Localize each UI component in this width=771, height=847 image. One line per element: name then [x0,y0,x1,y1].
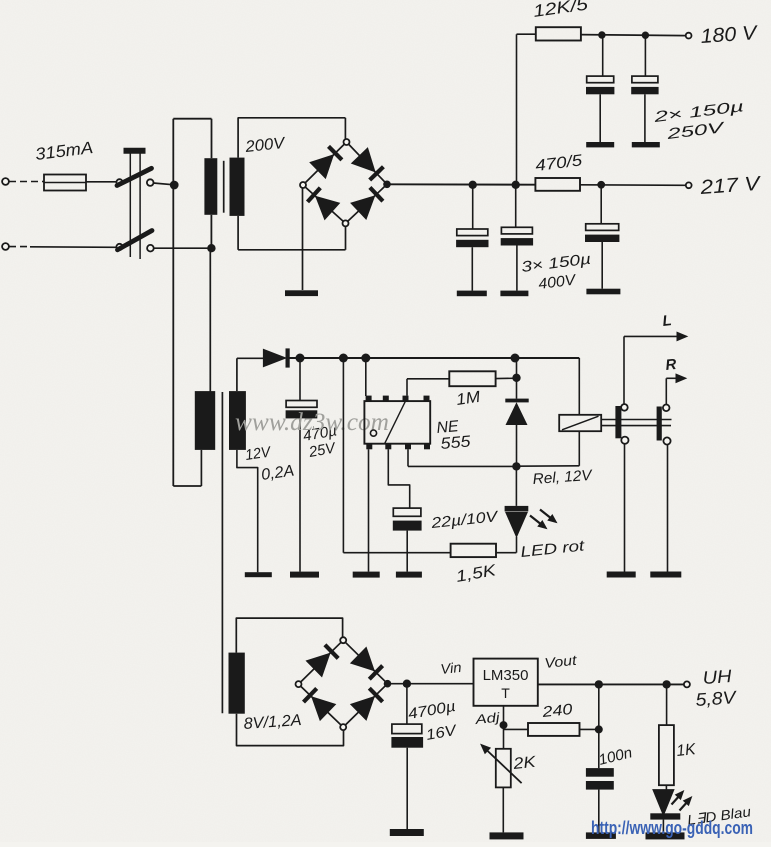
wire cap C2 to rail [644,35,646,76]
terminal UH [684,681,690,687]
wire out node down [598,684,600,768]
resistor 1,5K [451,544,496,557]
junction dot 180V a [598,31,605,38]
wire C2 to ground [644,94,646,142]
junction dot rail relay [511,354,520,363]
wire LM350 adj [503,706,505,725]
wire 1K to LED [665,785,667,789]
wire C5 to ground [601,242,603,289]
wire 1k5 feed vertical [342,358,344,553]
wire 555 pin2 to 22u [388,449,409,508]
capacitor 22u/10V [393,508,422,530]
wire 555 pin3 to relay node [408,449,516,466]
relay contact R bar [657,407,662,441]
mains bus left vertical [172,119,174,486]
wire D2 to node [516,425,518,467]
bridge B1 diode top-left [310,146,342,178]
label 22u/10V [429,508,500,532]
wire 1k5 right [496,552,516,554]
resistor 240 [528,723,580,736]
bridge B2 diode bottom-right [351,688,383,720]
label Vout [544,652,579,671]
flyback diode D2 [505,399,528,425]
transformer T1 secondary winding 200V [230,158,245,216]
wire cap C5 lead [600,185,602,224]
wire node N down to T2 primary [209,248,211,392]
wire terminal N to switch [9,246,117,249]
ground 555 [353,572,380,578]
NE555 diagonal [385,401,406,444]
label 2x150u [652,98,745,126]
ground 12V return [245,572,272,577]
switch S1 pole1 contacts [116,179,153,186]
wire 470u cap lead [299,358,301,401]
junction dot 1M [512,374,520,382]
transformer T3 secondary 8V winding [229,653,245,714]
svg-text:Vin: Vin [440,659,463,677]
LED blue bar [650,813,680,819]
wire 2K to ground [502,787,504,832]
capacitor 470u 25V [286,401,318,419]
svg-text:2K: 2K [512,754,538,773]
label Rel 12V [532,467,594,488]
wire LED blue to ground [662,820,664,833]
wire adj to 2K [503,725,505,749]
wire C4 to ground [516,246,518,291]
bridge B1 diode bottom-left [308,188,340,220]
junction dot adj [500,721,508,729]
wire node to LED [515,466,517,506]
junction dot 240 [595,725,603,733]
junction dot rail A [469,181,477,189]
junction dot 180V b [642,32,649,39]
terminal 217V [686,182,692,188]
switch S1 pole2 contacts [116,244,153,252]
mains terminal N [2,243,9,250]
ground contact R [650,572,681,578]
svg-text:www.dz3w.com: www.dz3w.com [235,409,389,436]
bridge B1 node right (junction) [383,181,391,189]
label LM350 [483,667,529,684]
bridge rectifier B2 frame [299,640,388,727]
watermark go-gddq [591,818,753,838]
NE555 circle mark [370,430,376,436]
svg-text:5,8V: 5,8V [695,687,738,710]
wire 4700u to ground [406,748,408,829]
wire switch pole1 to bus, node [153,181,178,190]
bridge rectifier B1 frame [303,142,387,223]
wire 100n to ground [598,790,600,833]
label LED rot [520,537,586,561]
wire rail to relay [578,358,580,415]
relay armature [601,420,671,426]
label 250V [665,119,727,143]
label Vin [440,659,463,677]
wire 4700u lead [406,684,408,724]
wire cap C3 lead [472,185,474,229]
wire T1 primary bottom to node [210,215,212,248]
svg-text:Adj: Adj [473,709,501,727]
ground C1 [586,142,614,147]
wire 22u to ground [406,531,408,572]
transformer T2 secondary 12V winding [229,391,246,450]
wire cap C4 lead [515,185,517,228]
bridge B1 node left [300,182,306,188]
transformer T2 primary winding [195,391,215,450]
regulator LM350 box [474,659,538,706]
trimmer 2K arrow [481,745,522,784]
wire contact R to ground [667,445,669,572]
wire contact R up and out R [666,374,686,404]
label 5,8V [695,687,738,710]
label 555 [440,433,471,453]
junction dot rail 555 [361,354,370,363]
wire T2 primary bottom to bus [173,450,201,486]
relay contact L bar [615,406,621,438]
trimmer 2K box [496,749,511,788]
wire 1M to relay branch [496,377,517,379]
label 12V [244,443,273,464]
label 16V [425,722,460,744]
ground 100n [586,832,616,839]
wire 555 pin5 top to 1M [407,379,449,396]
junction dot rail B [512,181,520,189]
label LED Blau [686,803,752,828]
label L [662,312,673,330]
label 470/5 [534,152,583,175]
wire 1K lead [666,684,668,725]
relay contact R circles [663,405,671,445]
relay coil box [559,415,601,431]
svg-text:1M: 1M [455,389,482,409]
wire C1 to ground [599,94,601,142]
wire 1k5 left [343,552,450,554]
bridge B2 node bottom [340,724,346,730]
wire up to 12K resistor [517,34,536,185]
bridge B1 diode top-right [352,148,384,180]
label 8V/1,2A [243,712,302,733]
LED red bar [505,506,529,512]
switch actuator bar [124,148,146,154]
wire T1 secondary bottom to bridge [238,216,345,250]
ground under bridge B1 [285,290,318,296]
wire T2 sec bottom to ground [237,450,258,572]
junction dot 4700u [403,680,411,688]
svg-text:1K: 1K [676,741,698,760]
wire 470u to ground [299,418,301,571]
bridge B1 diode bottom-right [351,187,383,219]
label 0,2A [260,463,295,484]
fuse F 315mA [44,175,86,191]
label 25V [307,439,338,461]
ground C3 [457,291,487,297]
wire contact L up and out L [624,332,687,404]
svg-text:http://www.go-gddq.com: http://www.go-gddq.com [591,818,753,838]
bridge B2 node top [340,637,346,643]
label 1,5K [455,562,499,586]
wire T2 sec top to rail [237,358,264,391]
wire B1 left node to ground [302,188,304,290]
wire switch pole2 to node [154,244,216,252]
switch S1 pole2 blade [118,231,153,250]
label 400V [537,271,578,293]
wire terminal to fuse (dashed) [9,181,44,183]
transformer core T2/T3 [221,392,223,713]
label 315mA [34,138,94,164]
svg-text:180 V: 180 V [700,22,759,48]
capacitor C3 150u [456,229,488,247]
resistor 470/5 [535,178,580,191]
label 470u [302,422,338,445]
wire 470/5 to 217V terminal [580,184,686,187]
ground C2 [632,142,660,147]
wire 12V rail [288,357,580,359]
capacitor 4700u 16V [391,724,423,748]
ground 22u [396,572,422,578]
bridge B2 diode top-right [351,647,383,679]
capacitor C1 150u [586,76,614,94]
watermark dz3w [235,409,389,436]
bridge B2 node left [296,681,302,687]
junction dot relay low [512,462,520,470]
wire 240 to out node [580,728,599,730]
wire LED to 1k5 rail [516,537,518,553]
wire T3 sec top loop [236,618,342,653]
ground 470u [290,572,319,578]
wire B1 output rail 217V [391,183,536,185]
relay contact L circles [621,404,628,444]
wire 555 pin1 top lead [365,358,367,396]
junction dot rail 470u [296,354,305,363]
IC NE555 box [364,401,430,444]
label R [665,356,678,374]
ground LED blue [646,832,685,839]
svg-text:UH: UH [702,666,733,688]
LED red arrows [530,510,557,529]
wire 12K to 180V terminal [581,35,686,36]
ground C4 [500,291,528,297]
junction dot rail 1k5 [339,354,348,363]
svg-text:LM350: LM350 [483,667,529,684]
diode D1 rectifier [263,348,287,367]
ground 2K [490,832,524,839]
label 217 V [699,173,762,199]
wire T3 sec bottom loop [237,714,344,746]
wire contact L to ground [624,444,626,572]
label 240 [540,701,574,721]
label 3x150u [520,251,592,276]
label 100n [597,744,634,769]
capacitor C5 150u [585,224,619,242]
bridge B1 node bottom [343,220,349,226]
label 1K [676,741,698,760]
wire cap C1 to rail [602,35,604,76]
switch actuator rails [130,154,140,260]
label 1M [455,389,482,409]
wire bus top to primary T1 [173,119,211,159]
resistor 1M [449,371,495,386]
LED blue arrows [672,791,692,811]
label Adj [473,709,501,727]
switch S1 pole1 blade [117,168,152,185]
svg-text:240: 240 [540,701,574,721]
label 4700u [407,698,457,723]
resistor 12K/5 [536,27,581,40]
svg-text:R: R [665,356,678,374]
label 180 V [700,22,759,48]
bridge B1 node top [344,139,350,145]
label 2K [512,754,538,773]
label 12K/5 [532,0,590,21]
ground C5 [586,289,620,295]
svg-text:555: 555 [440,433,471,453]
NE555 top pins [366,396,430,402]
junction dot 217V [597,181,605,189]
wire adj to 240 [504,728,529,730]
svg-text:T: T [501,685,510,701]
junction dot out a [595,680,603,688]
label NE [436,418,460,437]
label 200V [244,135,287,156]
capacitor C4 150u [501,227,533,245]
wire 555 pin1 to ground [368,449,370,571]
bridge B2 diode top-left [306,645,338,677]
wire B2 to LM350 [391,683,474,685]
svg-text:L: L [662,312,673,330]
ground 4700u [390,829,424,836]
wire relay to low node [516,431,579,466]
NE555 bottom pins [366,444,430,450]
LED red triangle [506,512,527,537]
mains terminal L [2,178,9,185]
label UH [702,666,733,688]
bridge B2 diode bottom-left [304,688,336,720]
wire fuse to switch [86,181,117,183]
junction dot out b [662,680,670,688]
resistor 1K [659,725,674,785]
LED blue triangle [653,790,674,816]
capacitor 100n [586,768,614,790]
transformer T1 primary winding [204,158,217,215]
ground contact L [607,572,636,578]
wire LM350 out to UH [538,683,684,685]
terminal 180V [686,33,692,39]
label LM350 T [501,685,510,701]
capacitor C2 150u [631,76,658,94]
flyback diode vertical lead [516,358,518,399]
svg-text:217 V: 217 V [699,173,762,199]
transformer T1 core [223,161,225,213]
wire T1 secondary top to bridge [238,118,346,158]
bridge B2 node right (junction) [384,680,392,688]
wire C3 to ground [471,247,473,290]
